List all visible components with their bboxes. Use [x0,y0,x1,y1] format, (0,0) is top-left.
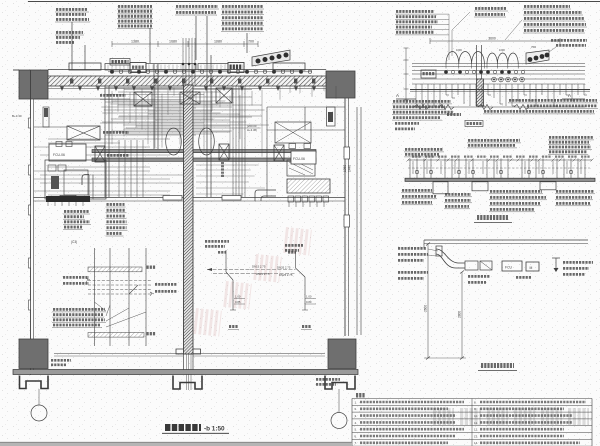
leader T5 [452,12,470,56]
central shaft wall hatched [184,85,194,354]
svg-text:8.: 8. [474,400,477,404]
louvre box 1 [105,64,130,71]
svg-text:1080: 1080 [169,40,177,44]
section1 ground line [410,90,590,92]
watermark gray bottom right [433,408,589,425]
svg-text:14.: 14. [474,441,478,445]
svg-text:3600: 3600 [488,37,496,41]
svg-text:FCU-06: FCU-06 [293,157,305,161]
svg-text:9.: 9. [474,407,477,411]
plan top dimension chain [112,40,258,48]
crossed bracing over wall [180,92,200,104]
sectionAA floor slab [405,178,595,181]
column top-left [19,70,48,99]
svg-text:2800: 2800 [458,311,462,318]
section1 top dim 3600 [430,37,560,45]
plumbing cluster 2 [288,252,316,330]
sectionBB ceiling [424,240,588,248]
svg-text:12.: 12. [474,428,478,432]
sectionAA footers [433,182,556,194]
svg-text:1.00: 1.00 [235,295,241,299]
notes rows text [355,400,587,445]
hatched heat exchanger box [287,160,315,176]
sectionBB sprinkler symbol [552,258,560,272]
parapet raised box left [69,63,101,70]
vertical pipe pair a [105,86,109,197]
section cut mark A right [562,93,585,99]
section1 boxed label left [421,70,436,78]
label AHU unit [103,131,129,134]
sectionAA bottom labels [401,190,595,211]
hydrant box 2 [228,63,244,73]
text block T5 [474,8,508,17]
FCU-06 unit left [49,142,86,162]
svg-text:FCU-06: FCU-06 [53,153,65,157]
hydrant box 1 [130,63,146,73]
svg-text:3.: 3. [355,414,358,418]
svg-text:700: 700 [531,45,536,49]
beam lower line [48,88,326,90]
svg-text:0.80: 0.80 [306,300,312,304]
axis line left [38,389,40,405]
svg-text:1440: 1440 [348,165,352,172]
pump oval 1 [166,128,182,155]
parapet top line [13,69,326,72]
notes header [356,393,365,398]
dashed pipe labels right [155,284,177,291]
sectionBB right labels [563,262,593,274]
svg-text:(C3): (C3) [71,240,77,244]
AHU crossed damper box A [67,126,100,140]
leader wires top-left [72,22,85,70]
slope label bottom [447,113,461,116]
hatched ceiling strip upper [88,267,142,272]
svg-text:1.: 1. [355,400,358,404]
svg-text:1.00: 1.00 [306,295,312,299]
bathtub fixture right wall [327,107,336,126]
sectionAA top labels right [548,137,594,154]
svg-text:A: A [568,93,571,98]
door lintel bars [60,196,241,201]
beam dark marks [70,79,315,84]
ceiling strip label upper [147,266,156,269]
column bottom-right [328,339,356,369]
riser verticals to wall [119,140,143,197]
section1 donut circles row [492,77,525,82]
section1 left caption rows [392,101,454,128]
svg-text:DN25 2.75: DN25 2.75 [256,272,270,276]
svg-text:1380: 1380 [131,40,139,44]
louvre box 3 [198,64,228,71]
insulated pipe wedge plan [252,50,290,66]
plan title [162,426,229,434]
footing right [325,376,355,390]
riser bundle above shaft wall [182,38,197,86]
hydrant label box dark [110,59,130,66]
crossed access panel right room [275,122,311,143]
riser pipes vertical group [95,248,147,346]
sectionBB FCU box [502,261,522,271]
sectionBB M box [526,262,539,271]
diffuser marks under beam [60,87,316,92]
axis bubble right [331,413,347,429]
sheet border top line [28,1,600,3]
gray duct run upper [92,150,316,153]
L-bend duct right [255,190,276,201]
vertical pipe pair c [207,55,211,197]
floor slab band [13,370,358,375]
left wall [29,70,34,375]
column top-right [326,71,355,98]
louvre box 2 [146,64,196,71]
hatched ceiling strip lower [88,333,144,338]
room text annotations [205,241,303,250]
svg-text:4.: 4. [355,421,358,425]
section1 insulation scallops [446,48,518,69]
svg-text:H+3.30): H+3.30) [247,128,257,132]
machinery pipe clutter [34,86,336,195]
sectionAA left labels [404,149,444,157]
plumbing cluster 1 [207,250,296,330]
fire damper F [219,144,229,160]
notes table grid [352,399,592,446]
fire damper B [95,146,105,162]
section1 pipe drops below ground [416,84,587,106]
parapet raised box right [273,63,305,70]
sectionAA weight label box [465,121,483,127]
horizontal wall mid-plan [34,198,346,202]
bottom sheet band [0,442,352,446]
vertical pipe bundle mid-right [233,86,245,197]
drain pipes through floor [187,354,192,390]
svg-text:M: M [530,266,533,270]
svg-text:11.: 11. [474,421,478,425]
svg-text:700: 700 [248,40,254,44]
pipe circles row above beam [108,70,312,73]
svg-text:0.85: 0.85 [235,300,241,304]
svg-text:13.: 13. [474,434,478,438]
axis line right [338,389,340,412]
svg-text:2600: 2600 [424,305,428,312]
leader wires from spec rows [95,302,147,327]
sectionAA dimension chain [407,157,594,162]
svg-text:1000: 1000 [499,48,505,52]
right wall [344,98,350,336]
level label room [247,124,257,132]
sectionBB left labels [398,248,438,278]
svg-text:1080: 1080 [214,40,222,44]
watermark pink center [195,240,311,324]
hole label bottom right [316,379,340,384]
sectionBB under-duct labels [468,276,532,282]
hatched beam band [48,76,326,86]
sectionBB duct S-bend [436,246,492,270]
shaft wall base flange [176,349,201,354]
leader wire T1 [149,28,151,63]
text block T6 [523,6,587,33]
ceiling strip label lower [147,332,156,335]
svg-text:7.: 7. [355,441,358,445]
column bottom-left [19,339,48,369]
pump oval 2 [199,128,215,155]
label AHU duct [100,94,126,97]
leader wires T2 [196,16,207,60]
footing center [173,376,202,390]
shaft wall lines to slab [184,354,194,370]
leader text wedge top-right [549,40,587,52]
reserve hole label near column [51,360,71,365]
text block T4 [395,11,449,60]
section1 right caption rows [483,100,598,114]
vertical label below damper F [221,162,224,178]
section cut mark A left [396,93,416,99]
text block T1 [117,6,153,28]
label humidifier pipe [107,154,129,157]
caption A-A [474,218,512,223]
section1 insulated wedge [526,45,549,64]
section1 riser pair through scallops [477,45,482,79]
svg-text:10.: 10. [474,414,478,418]
text block top-left riser labels [55,9,90,42]
svg-text:-b 1:50: -b 1:50 [204,426,225,433]
section1 pipe band lines [412,64,585,85]
section1 hatched wall [477,79,484,106]
caption B-B [478,366,517,371]
ticks below boxes row [289,202,324,207]
svg-text:A: A [396,93,399,98]
small boxes row under duct [288,196,329,202]
section1 lower line with breaks [410,105,585,110]
small squares above FCU right [289,144,311,149]
footing left [20,376,49,389]
svg-text:1350: 1350 [343,165,347,172]
wall fixture narrow [43,107,49,127]
sectionBB dim verticals [424,243,466,360]
fire damper E [274,145,284,161]
under-wall lines bottom [54,354,325,357]
pipes outside right wall [357,107,361,335]
FCU-06 unit right [291,151,316,164]
axis bubble left [31,405,47,421]
svg-text:1000: 1000 [456,48,462,52]
svg-text:6.: 6. [355,434,358,438]
vertical pipe pair b [154,64,158,149]
section1 left dim line [404,48,409,104]
fire damper D [216,88,232,103]
svg-text:5.: 5. [355,428,358,432]
leader wire T3 [246,33,248,53]
pipe spec rows lower-left [52,309,106,327]
bathroom block [45,160,106,206]
svg-text:B+3.30: B+3.30 [12,114,22,118]
text block T3 [221,6,264,31]
sectionAA pipe drops [408,159,590,179]
leader T6 [505,20,522,40]
svg-text:DN15 2.75: DN15 2.75 [252,265,266,269]
text block T2 [175,6,219,15]
section1 pipe circles row [444,70,524,73]
dashed pipes group [86,278,154,296]
svg-text:DN25 2.75: DN25 2.75 [277,266,291,270]
fire damper C [134,92,152,106]
dashed pipe labels left [63,277,89,283]
svg-text:FCU: FCU [505,266,513,270]
hatched duct assembly right [287,179,330,193]
gray duct run lower [92,158,316,161]
text table left-mid [63,204,128,236]
room partition lines right [267,107,345,197]
sectionAA top labels left [467,140,521,148]
svg-text:2.: 2. [355,407,358,411]
